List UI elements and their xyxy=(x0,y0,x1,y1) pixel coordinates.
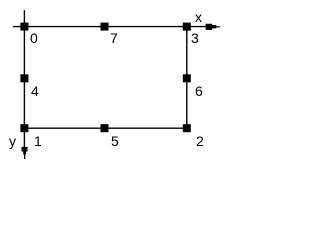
node 7 label xyxy=(110,30,118,46)
node 5 label xyxy=(111,133,119,149)
node 4 marker (left mid-side) xyxy=(20,74,28,82)
wire bottom edge (nodes 1-5-2) xyxy=(24,127,186,129)
node 3 label xyxy=(191,30,199,46)
node 5 marker (bottom mid-side) xyxy=(101,124,109,132)
node 3 marker (top-right corner) xyxy=(183,23,191,31)
node 4 label xyxy=(31,83,39,99)
node 6 label xyxy=(195,83,203,99)
y axis label xyxy=(9,133,16,149)
node 2 label xyxy=(196,133,204,149)
node 1 marker (bottom-left corner) xyxy=(20,124,28,132)
x axis shaft xyxy=(191,26,207,28)
node 0 marker (top-left corner) xyxy=(20,23,28,31)
node 1 label xyxy=(34,133,42,149)
wire left edge (nodes 0-4-1) xyxy=(23,10,25,128)
wire right edge (nodes 3-6-2) xyxy=(186,27,188,129)
node 6 marker (right mid-side) xyxy=(183,74,191,82)
wire top edge (nodes 0-7-3) xyxy=(13,26,191,28)
node 7 marker (top mid-side) xyxy=(101,23,109,31)
x axis arrowhead xyxy=(206,24,221,30)
node 0 label xyxy=(30,30,38,46)
y axis shaft xyxy=(23,128,25,148)
node 2 marker (bottom-right corner) xyxy=(183,124,191,132)
y axis arrowhead xyxy=(22,147,28,159)
x axis label xyxy=(195,9,202,25)
